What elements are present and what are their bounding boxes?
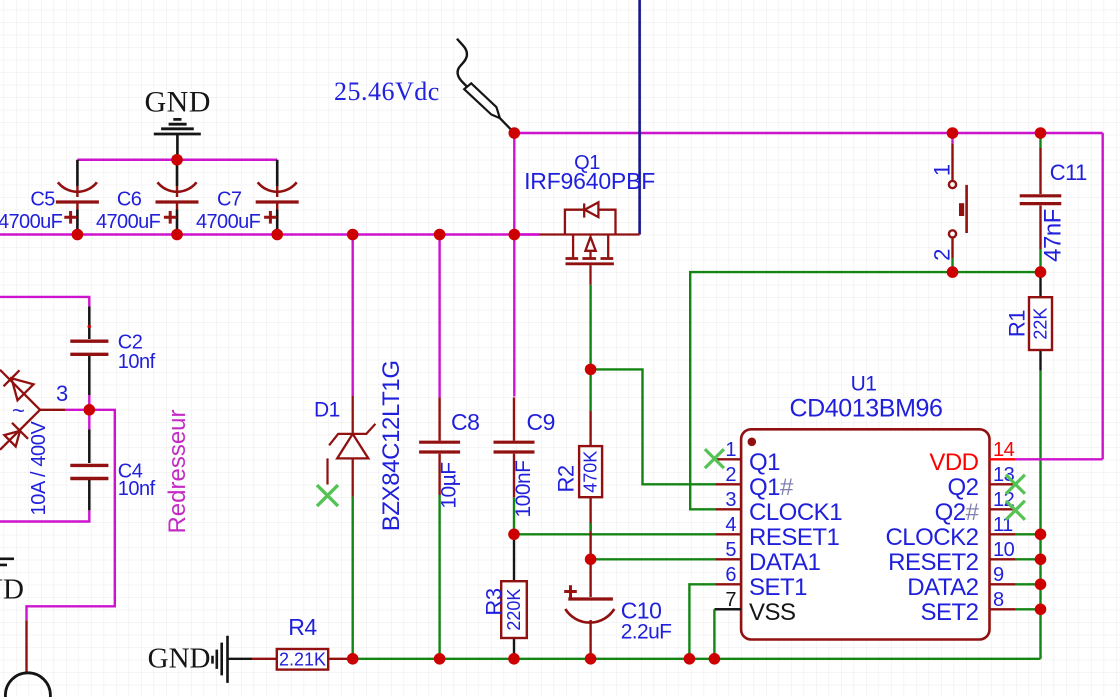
wire green C9 to RESET1 node	[513, 497, 515, 534]
svg-text:47nF: 47nF	[1040, 209, 1067, 262]
no-connect X on D1	[317, 485, 338, 506]
svg-text:4700uF: 4700uF	[96, 211, 161, 233]
wire magenta right vertical to VDD pin	[1101, 133, 1103, 459]
svg-text:1: 1	[930, 164, 955, 176]
no-connect X pin 12	[1006, 501, 1025, 520]
wire green DATA1	[591, 558, 716, 560]
wire dark blue drain wire	[638, 0, 641, 235]
no-connect X pin 1	[705, 449, 724, 468]
svg-text:13: 13	[993, 464, 1015, 486]
U1 pin 14 stub red	[990, 458, 1016, 460]
node C7 bottom	[271, 229, 283, 241]
resistor R3	[501, 581, 527, 638]
node pin 9	[1035, 579, 1047, 591]
capacitor C4	[70, 430, 108, 511]
svg-text:4: 4	[725, 514, 736, 536]
wire green R2 top segment	[589, 369, 591, 411]
svg-text:3: 3	[56, 381, 68, 406]
svg-text:10: 10	[993, 539, 1015, 561]
ground GND bottom left	[148, 636, 228, 683]
U1 pin numbers	[725, 439, 736, 611]
no-connect X pin 13	[1006, 475, 1025, 494]
wire magenta drop to C8	[438, 235, 440, 398]
svg-text:100nF: 100nF	[512, 460, 535, 517]
wire magenta C2 bottom to node	[88, 395, 90, 410]
node pin 8	[1035, 604, 1047, 616]
U1 left pin stubs	[715, 459, 741, 584]
bridge rectifier (partial, left edge)	[0, 370, 65, 450]
svg-text:R2: R2	[554, 465, 579, 492]
resistor R4	[252, 658, 277, 660]
svg-text:10A / 400V: 10A / 400V	[28, 421, 50, 516]
wire magenta switch top stub	[951, 133, 953, 144]
svg-text:Redresseur: Redresseur	[164, 409, 191, 533]
svg-text:~: ~	[12, 398, 25, 423]
IC U1 CD4013BM96	[741, 429, 989, 639]
svg-text:C9: C9	[527, 409, 555, 435]
svg-text:R1: R1	[1005, 310, 1030, 337]
svg-text:22K: 22K	[1031, 308, 1051, 340]
transformer circle	[5, 673, 50, 697]
node ground bus C10	[585, 653, 597, 665]
svg-text:SET2: SET2	[920, 599, 978, 626]
wire main supply bus magenta	[0, 233, 539, 235]
wire green R1 riser	[1039, 371, 1041, 659]
svg-text:10µF: 10µF	[438, 462, 461, 508]
svg-text:Q2: Q2	[947, 474, 978, 501]
svg-text:DATA2: DATA2	[907, 574, 978, 601]
power flag GND top	[144, 86, 211, 160]
wire magenta bridge node to transformer	[27, 410, 115, 621]
svg-text:CLOCK2: CLOCK2	[885, 524, 978, 551]
svg-text:IRF9640PBF: IRF9640PBF	[524, 168, 655, 194]
node probe	[509, 127, 521, 139]
wire black ground to R4	[228, 658, 253, 660]
capacitor C10 polarized	[564, 559, 614, 622]
capacitor C9	[494, 397, 535, 497]
wire green ground bus	[353, 658, 1041, 660]
resistor R1	[1029, 297, 1052, 350]
wire black R3 bottom	[513, 638, 515, 659]
svg-text:C5: C5	[30, 189, 55, 211]
node C6 bottom	[171, 229, 183, 241]
wire green C11 bottom stub	[1039, 249, 1041, 272]
node pin 10	[1035, 554, 1047, 566]
svg-text:VDD: VDD	[929, 449, 978, 476]
wire black R1 bottom	[1039, 350, 1041, 371]
node C5 bottom	[72, 229, 84, 241]
voltage probe with label	[457, 39, 514, 133]
svg-text:10nf: 10nf	[118, 478, 156, 500]
wire magenta C4 bottom around bridge	[0, 510, 89, 521]
U1 pin names	[749, 449, 842, 626]
svg-text:DATA1: DATA1	[749, 549, 820, 576]
ground partial at left edge	[0, 559, 14, 565]
svg-text:Q1: Q1	[749, 449, 780, 476]
node ground bus R3	[508, 653, 520, 665]
wire green VSS drop	[713, 609, 715, 659]
svg-text:D1: D1	[314, 399, 340, 422]
svg-text:BZX84C12LT1G: BZX84C12LT1G	[378, 360, 405, 531]
node switch top	[947, 127, 959, 139]
node R2 top	[585, 364, 597, 376]
svg-text:14: 14	[993, 439, 1015, 461]
node GND bus tap	[171, 154, 183, 166]
node C11 top	[1035, 127, 1047, 139]
wire black R3 top	[513, 534, 515, 581]
svg-text:C11: C11	[1050, 160, 1087, 185]
svg-text:220K: 220K	[504, 589, 524, 631]
svg-text:GND: GND	[144, 86, 211, 119]
node C11 bottom	[1035, 266, 1047, 278]
node DATA1	[585, 554, 597, 566]
node ground bus VSS	[709, 653, 721, 665]
wire green D1 to ground bus	[352, 497, 354, 659]
svg-text:C6: C6	[117, 189, 142, 211]
svg-text:C7: C7	[217, 189, 242, 211]
capacitor C11	[1020, 148, 1062, 249]
wire green SET1 to ground	[689, 584, 715, 659]
transistor Q1 IRF9640PBF	[514, 202, 639, 284]
capacitor C7	[256, 160, 299, 235]
pin 1 marker dot	[748, 438, 757, 447]
svg-text:U1: U1	[851, 373, 877, 396]
svg-text:4700uF: 4700uF	[196, 211, 261, 233]
wire green Q1 gate to R2 node	[589, 285, 591, 370]
svg-text:2: 2	[725, 464, 736, 486]
svg-text:R4: R4	[288, 614, 317, 640]
wire dark red C10 bottom to bus	[589, 620, 591, 659]
wire black R1 top	[1039, 272, 1041, 297]
svg-text:CD4013BM96: CD4013BM96	[789, 395, 942, 423]
wire magenta VDD pin to right vertical	[1016, 458, 1103, 460]
svg-text:10nf: 10nf	[118, 351, 156, 373]
svg-text:C8: C8	[451, 409, 479, 435]
svg-text:5: 5	[725, 539, 736, 561]
wire magenta to C2 from left	[0, 297, 89, 307]
svg-text:2.21K: 2.21K	[279, 649, 326, 669]
wire green CLOCK1 riser to switch net	[690, 272, 1040, 509]
node C9 top	[509, 229, 521, 241]
wire green RESET1	[514, 533, 715, 535]
svg-text:RESET1: RESET1	[749, 524, 840, 551]
node D1 top	[347, 229, 359, 241]
svg-text:R3: R3	[482, 588, 507, 615]
svg-text:RESET2: RESET2	[888, 549, 979, 576]
node ground bus SET1	[684, 653, 696, 665]
svg-text:3: 3	[725, 489, 736, 511]
svg-text:7: 7	[725, 589, 736, 611]
capacitor C5	[56, 160, 99, 235]
wire black VSS	[714, 608, 741, 610]
wire green C8 to ground bus	[438, 495, 440, 659]
svg-text:Q2#: Q2#	[935, 499, 980, 526]
wire top VDD bus magenta	[514, 132, 1102, 134]
wire magenta vertical from probe node down through bus to C9	[513, 133, 515, 397]
node bridge output	[84, 404, 96, 416]
wire magenta node to C4	[88, 410, 90, 430]
capacitor C2	[70, 307, 108, 396]
svg-text:SET1: SET1	[749, 574, 807, 601]
svg-text:9: 9	[993, 564, 1004, 586]
svg-text:25.46Vdc: 25.46Vdc	[334, 77, 440, 106]
node ground bus D1	[347, 653, 359, 665]
svg-text:CLOCK1: CLOCK1	[749, 499, 842, 526]
svg-text:2: 2	[930, 249, 955, 261]
node RESET1	[508, 529, 520, 541]
U1 right pin stubs	[990, 484, 1016, 609]
wire green right pins to riser	[1016, 534, 1041, 609]
svg-text:Q1#: Q1#	[749, 474, 794, 501]
svg-text:470K: 470K	[581, 451, 601, 493]
zener diode D1 BZX84C12LT1G	[328, 396, 376, 497]
node switch bottom	[947, 266, 959, 278]
wire magenta drop to D1	[352, 235, 354, 397]
capacitor C6	[156, 160, 199, 235]
resistor R2	[589, 411, 591, 446]
capacitor C8	[419, 397, 460, 495]
node ground bus C8	[434, 653, 446, 665]
wire R2 bottom segments	[589, 497, 591, 559]
switch SW push button	[949, 144, 967, 258]
wire green R2 node to riser	[591, 369, 716, 484]
wire dark red transformer lead	[25, 620, 27, 673]
node C8 top	[434, 229, 446, 241]
svg-text:1: 1	[725, 439, 736, 461]
svg-text:8: 8	[993, 589, 1004, 611]
svg-text:GND: GND	[148, 643, 211, 675]
wire green switch bottom stub	[951, 258, 953, 272]
svg-text:6: 6	[725, 564, 736, 586]
svg-text:4700uF: 4700uF	[0, 211, 63, 233]
svg-text:2.2uF: 2.2uF	[621, 621, 672, 644]
node pin 11	[1035, 529, 1047, 541]
U1 pin 7 stub black	[715, 608, 741, 610]
wire capacitor top bus magenta	[77, 159, 277, 161]
svg-text:VSS: VSS	[749, 599, 796, 626]
wire green C11 top stub	[1039, 133, 1041, 148]
svg-text:GND: GND	[0, 574, 24, 606]
